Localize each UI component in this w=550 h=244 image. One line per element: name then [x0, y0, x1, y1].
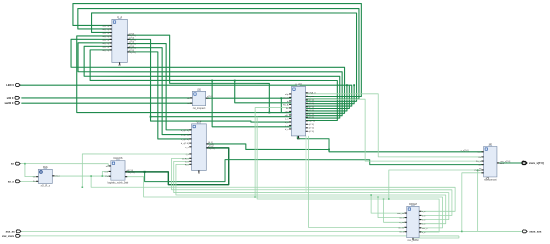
- wire net_AR2 (U_A pin R2 down then east with jog to U_C left): [127, 39, 291, 122]
- junction net_FL2: [377, 196, 379, 198]
- output port output_x: [522, 162, 527, 165]
- junction net_AL8 a: [234, 80, 236, 82]
- svg-text:b_x[7:0]: b_x[7:0]: [181, 134, 189, 136]
- input port sw0: [15, 96, 20, 99]
- wire net_gclk_up (branch up to CHAOS left pin2): [102, 171, 111, 176]
- svg-text:a0[7:0]: a0[7:0]: [102, 43, 109, 45]
- svg-text:x0[7:0]: x0[7:0]: [128, 172, 135, 174]
- svg-text:a0[7:0]: a0[7:0]: [102, 32, 109, 34]
- junction net_led b: [346, 84, 348, 86]
- svg-text:LED 0: LED 0: [6, 83, 14, 87]
- svg-text:x00 0: x00 0: [7, 96, 14, 100]
- wire net_p7_loop (loop under U_F to its bottom stub): [413, 236, 459, 240]
- wire net_CR1 light (U_C right pin1 to U_E left pin2): [306, 94, 484, 157]
- wire net_CL_light1 (U_C left light pin loop down to U_F right pin5): [255, 108, 442, 228]
- svg-text:x[7:0]: x[7:0]: [130, 52, 136, 54]
- junction net_AR2_tap: [150, 116, 152, 118]
- svg-text:x0Y: x0Y: [285, 115, 289, 117]
- svg-text:a0[7:0]: a0[7:0]: [102, 50, 109, 52]
- wire net_CL_light2 (light loop down to U_F right pin6): [257, 117, 439, 232]
- wire net_AR5 (U_A pin R5 down to U_D left pin3): [127, 52, 191, 139]
- svg-text:logistic_xchb_0ab: logistic_xchb_0ab: [108, 181, 129, 185]
- wire net_chaos_branch (tap on CHAOS out, loops to U_E left pin4): [145, 160, 484, 182]
- junction net_FL3: [383, 198, 385, 200]
- wire net_gclk_long (branch down, long run, down to U_F right pin1): [91, 176, 455, 211]
- wire net_AL8_branch1 (branch down to U_C left pin): [235, 80, 292, 102]
- svg-text:xxx_x: xxx_x: [422, 228, 428, 230]
- junction net_B_out: [280, 97, 282, 99]
- svg-text:x[7:0]: x[7:0]: [308, 114, 314, 116]
- svg-text:x[7:0]: x[7:0]: [308, 110, 314, 112]
- wire net_AR1 (U_A pin R1 east-down-east, merges into U_C left): [127, 35, 291, 112]
- wire net_AR4 (U_A pin R4 down to U_D left pin2): [127, 48, 191, 135]
- junction net_FL1: [370, 194, 372, 196]
- module rst_inspect B: [187, 87, 211, 110]
- wire net_DL8 light (U_D left pin loop to U_F right pin2): [172, 158, 452, 215]
- wire net_AL6 (U_A pin L6 loop to U_C right): [78, 43, 342, 116]
- input port ena2: [16, 234, 21, 237]
- input port sw1: [15, 101, 20, 104]
- svg-text:c_x[7:0]: c_x[7:0]: [181, 139, 189, 141]
- module U_E output stage: [475, 142, 505, 181]
- input port LED: [15, 84, 20, 87]
- svg-text:d_x: d_x: [285, 129, 289, 131]
- svg-text:xxx_xx: xxx_xx: [397, 213, 405, 215]
- svg-text:xxx_RAM: xxx_RAM: [407, 238, 418, 242]
- wire net_AR3 (U_A pin R3 down to U_D left pin1): [127, 44, 191, 130]
- wire net_AR2_tap (tap east to U_C left pin6): [151, 116, 292, 118]
- wire net_p3 (port to B left pin2): [21, 102, 192, 104]
- wire net_CB4 light (U_C bottom long loop west-feed to U_F left pin4): [308, 136, 406, 228]
- svg-text:x_x[7:0]: x_x[7:0]: [461, 150, 469, 152]
- svg-text:a0[7:0]: a0[7:0]: [102, 39, 109, 41]
- wire net_AL1 (U_A pin L1 loops over top to U_C right): [73, 4, 361, 97]
- wire net_FL3 (U_F left pin3 up to run y198.6): [384, 199, 407, 222]
- wire net_AL8_branch2 (branch down to U_C left lower pin): [212, 80, 291, 126]
- junction net_led a: [353, 84, 355, 86]
- svg-text:rst_inspect: rst_inspect: [193, 106, 206, 110]
- svg-text:xxx_xx: xxx_xx: [6, 230, 15, 233]
- clk buffer G: [33, 165, 61, 188]
- svg-text:rst: rst: [187, 102, 190, 105]
- input port rst_in: [15, 180, 20, 183]
- junction net_C_rst: [328, 149, 330, 151]
- svg-text:x0V: x0V: [285, 111, 289, 113]
- wire net_gclk (G out east to CHAOS left pin3): [52, 175, 111, 177]
- wire net_p6 (bottom port long run to output port): [21, 230, 522, 232]
- wire net_AL7 (U_A pin L7 loop to U_C right): [84, 46, 340, 118]
- wire net_CR2 light (U_C right pin2 to U_E left pin3): [306, 99, 484, 161]
- svg-text:xx_xx: xx_xx: [398, 227, 404, 229]
- svg-text:Rx_A: Rx_A: [283, 103, 289, 106]
- wire net_p4_branch (branch down to G left pin1): [25, 164, 38, 177]
- svg-text:x[7:0]: x[7:0]: [308, 117, 314, 119]
- svg-text:x[7:0]: x[7:0]: [308, 107, 314, 109]
- junction net_gclk c: [82, 186, 84, 188]
- wire net_led_branch3 (tap down to U_C right): [306, 85, 350, 108]
- module u_ctrl C: [283, 82, 316, 140]
- wire net_chaos2 light (CHAOS right pin2 down to long run east): [125, 177, 255, 197]
- junction net_chaos2: [254, 196, 256, 198]
- svg-text:u0p: u0p: [285, 94, 289, 96]
- svg-text:0xw0: 0xw0: [283, 97, 289, 99]
- wire net_p7 (bottom port run east): [21, 235, 459, 237]
- wire net_DL10 light (U_D left pin loop to U_F right pin4): [176, 164, 446, 223]
- wire net_p2 (port to B left pin1): [21, 97, 192, 99]
- svg-text:ctl: ctl: [118, 63, 121, 67]
- svg-text:x[7:0]: x[7:0]: [129, 50, 135, 52]
- svg-text:x[7:0]: x[7:0]: [129, 42, 135, 44]
- svg-text:xO_R_x: xO_R_x: [41, 184, 51, 188]
- svg-text:x[7:0]: x[7:0]: [308, 124, 314, 126]
- wire net_CB3 light (U_C bottom vertical): [305, 136, 307, 193]
- svg-text:x[7:0]: x[7:0]: [308, 131, 314, 133]
- input port clk_in: [15, 162, 20, 165]
- svg-text:o_xxx: o_xxx: [308, 96, 315, 98]
- junction net_AL8 b: [211, 80, 213, 82]
- wire net_FL1 (U_F left pin1 west then up to run y194.6): [371, 195, 407, 213]
- svg-text:x0[7:0]: x0[7:0]: [126, 170, 133, 172]
- output port output_rst: [522, 230, 527, 233]
- junction net_EL5 src: [388, 198, 390, 200]
- svg-text:a0[7:0]: a0[7:0]: [102, 25, 109, 27]
- svg-text:x[7:0]: x[7:0]: [129, 46, 135, 48]
- U_E bottom reset stub circle: [487, 177, 489, 179]
- wire net_out (U_E right pin to output port): [497, 162, 521, 164]
- wire net_AL4 (U_A pin L4 down then east to U_C left): [77, 36, 292, 113]
- wire net_B_out (B right pin east to U_C left pin1, branch down): [206, 97, 292, 99]
- wire net_p6_up (branch up to U_E left pin6): [462, 173, 484, 232]
- wire net_p5 (port to G left pin2): [20, 180, 38, 182]
- wire net_AL8 (U_A pin L8 loop to U_C right, branches to U_C left): [90, 50, 337, 121]
- junction net_gclk a: [90, 175, 92, 177]
- svg-text:xx[7:0]: xx[7:0]: [308, 121, 315, 123]
- wire net_EL5_branch (vertical down to bottom run): [477, 170, 479, 231]
- module U_D: [181, 119, 215, 174]
- svg-text:a_x: a_x: [285, 118, 289, 120]
- svg-text:xlc_concat: xlc_concat: [484, 177, 497, 181]
- microblaze U_A: [102, 15, 136, 67]
- svg-text:xw00 0: xw00 0: [5, 101, 14, 105]
- svg-text:xxx_x[7:0]: xxx_x[7:0]: [500, 161, 510, 163]
- junction chaos net: [144, 171, 146, 173]
- junction net_gclk b: [102, 175, 104, 177]
- svg-text:xx_x: xx_x: [8, 180, 14, 183]
- svg-text:e_x: e_x: [185, 147, 189, 149]
- wire net_DR1 (U_D right pin1 east to U_E left pin1): [206, 144, 483, 152]
- junction net_EL5: [477, 169, 479, 171]
- input port ena: [16, 230, 21, 233]
- svg-text:Rx: Rx: [286, 108, 290, 110]
- svg-text:xx: xx: [11, 163, 14, 166]
- svg-text:x[7:0]: x[7:0]: [208, 146, 214, 148]
- svg-text:a0[7:0]: a0[7:0]: [102, 29, 109, 31]
- wire net_DL9 light (U_D left pin loop to U_F right pin3): [174, 161, 449, 219]
- wire net_AL3 (U_A pin L3 loops over top to U_C right): [92, 13, 357, 101]
- module DRAM F: [397, 202, 428, 242]
- wire net_C_rst (U_C bottom stub down-east, merges into net to U_E): [297, 136, 329, 149]
- wire net_AL5 (U_A pin L5 loop down-east to U_C right): [71, 39, 345, 113]
- svg-text:x[7:0]: x[7:0]: [129, 33, 135, 35]
- svg-text:x[7:0]: x[7:0]: [207, 96, 213, 98]
- svg-text:x[7:0]: x[7:0]: [209, 148, 215, 150]
- wire net_chaos thick (CHAOS out loops to U_D right pin2): [125, 148, 229, 185]
- junction net_p6: [461, 231, 463, 233]
- wire net_led_branch1 (tap down to U_C right): [306, 85, 355, 104]
- svg-text:x[7:0]: x[7:0]: [308, 103, 314, 105]
- svg-text:a0[7:0]: a0[7:0]: [102, 46, 109, 48]
- module CHAOS H: [104, 156, 134, 184]
- wire net_led_branch2 (tap down to U_C right): [306, 85, 347, 111]
- svg-text:x[7:0]: x[7:0]: [308, 128, 314, 130]
- wire net_EL5 light (tap up from run y198.6 into U_E left pin5): [389, 170, 484, 199]
- wire net_gclk_d (branch west-up into U_D left light pin): [82, 154, 191, 187]
- svg-text:a0[7:0]: a0[7:0]: [102, 36, 109, 38]
- wire net_p4 (port to CHAOS left pin1): [20, 164, 111, 166]
- wire net_FL2 (U_F left pin2 up to run y196.6): [378, 197, 407, 218]
- svg-text:U_R_x: U_R_x: [182, 158, 190, 160]
- wire net_AL2 (U_A pin L2 loops over top to U_C right): [78, 9, 359, 99]
- svg-text:[.4.1]: [.4.1]: [208, 142, 213, 144]
- wire net_B_out_branch (branch down to AL4 net): [280, 98, 282, 112]
- svg-text:xxx_xxxx: xxx_xxxx: [2, 235, 14, 238]
- svg-text:x[7:0]: x[7:0]: [308, 100, 314, 102]
- svg-text:d_x[7:0]: d_x[7:0]: [181, 143, 189, 145]
- svg-text:xxxx_x[7:0]: xxxx_x[7:0]: [529, 161, 544, 165]
- wire net_led (port LED east, down staircase to U_C right): [20, 85, 352, 106]
- svg-text:xxxx_xxx: xxxx_xxx: [529, 230, 541, 233]
- svg-text:xx_x: xx_x: [399, 232, 404, 234]
- svg-text:d: d: [198, 171, 200, 175]
- junction net_p4: [24, 163, 26, 165]
- junction net_AR1/AL4: [268, 112, 270, 114]
- svg-text:DNA_X: DNA_X: [308, 92, 316, 95]
- svg-text:ctl: ctl: [297, 136, 300, 140]
- svg-text:a_x[7:0]: a_x[7:0]: [181, 130, 189, 132]
- svg-text:x[7:0]: x[7:0]: [129, 37, 135, 39]
